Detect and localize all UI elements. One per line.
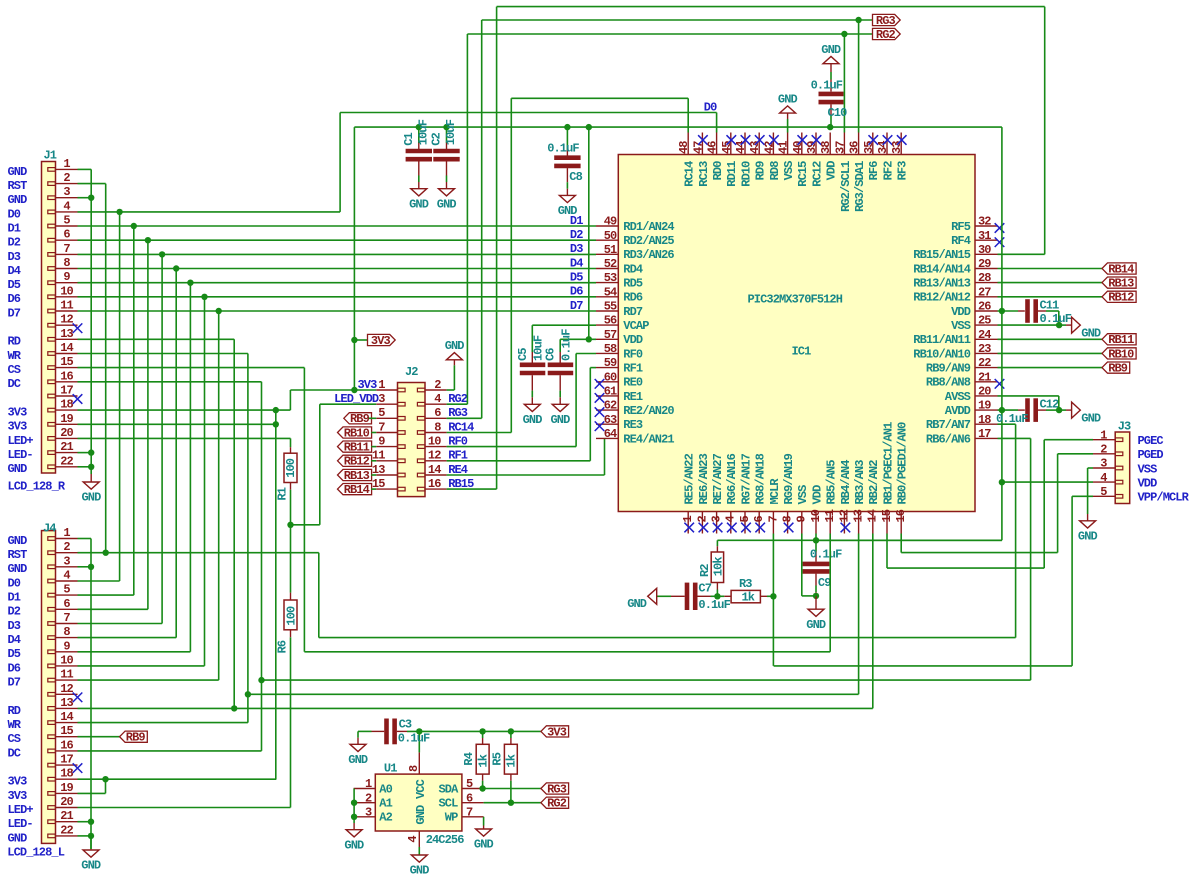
- svg-text:43: 43: [748, 141, 762, 154]
- svg-text:RB9: RB9: [126, 731, 146, 745]
- svg-text:RG3/SDA1: RG3/SDA1: [853, 161, 867, 212]
- svg-text:8: 8: [434, 420, 441, 434]
- svg-text:RB12: RB12: [1108, 291, 1134, 305]
- svg-text:14: 14: [428, 463, 441, 477]
- svg-text:5: 5: [63, 583, 70, 597]
- svg-text:8: 8: [781, 516, 795, 523]
- svg-text:RC14: RC14: [683, 161, 697, 187]
- svg-text:LED-: LED-: [8, 817, 33, 831]
- svg-text:GND: GND: [82, 491, 102, 505]
- svg-text:45: 45: [720, 141, 734, 154]
- svg-text:RF2: RF2: [881, 161, 895, 181]
- svg-text:4: 4: [63, 199, 70, 213]
- svg-text:RD7: RD7: [623, 305, 643, 319]
- svg-text:VSS: VSS: [1138, 462, 1158, 476]
- svg-text:51: 51: [604, 243, 617, 257]
- svg-text:5: 5: [1100, 485, 1107, 499]
- svg-text:RG9/AN19: RG9/AN19: [782, 453, 796, 504]
- svg-text:RG7/AN17: RG7/AN17: [739, 453, 753, 504]
- svg-text:21: 21: [60, 440, 73, 454]
- svg-text:LED+: LED+: [8, 803, 34, 817]
- svg-text:VDD: VDD: [810, 485, 824, 505]
- svg-text:D5: D5: [8, 647, 21, 661]
- svg-text:RD11: RD11: [725, 161, 739, 187]
- svg-text:RB8/AN8: RB8/AN8: [926, 376, 971, 390]
- svg-text:55: 55: [604, 300, 617, 314]
- svg-text:12: 12: [60, 313, 73, 327]
- svg-text:5: 5: [63, 214, 70, 228]
- svg-text:5: 5: [738, 516, 752, 523]
- svg-text:RB15: RB15: [448, 477, 474, 491]
- svg-text:15: 15: [60, 724, 73, 738]
- svg-text:U1: U1: [384, 761, 397, 775]
- svg-text:RF5: RF5: [951, 220, 971, 234]
- svg-text:RF1: RF1: [623, 362, 643, 376]
- svg-text:58: 58: [604, 342, 617, 356]
- svg-text:16: 16: [60, 369, 73, 383]
- svg-text:GND: GND: [409, 197, 429, 211]
- svg-text:49: 49: [604, 215, 617, 229]
- svg-text:WR: WR: [8, 349, 22, 363]
- svg-text:C2: C2: [430, 132, 444, 145]
- svg-text:D3: D3: [8, 619, 21, 633]
- svg-text:C9: C9: [818, 576, 831, 590]
- svg-text:R3: R3: [739, 577, 752, 591]
- svg-text:54: 54: [604, 285, 617, 299]
- svg-text:D7: D7: [570, 299, 583, 313]
- svg-text:1: 1: [63, 526, 70, 540]
- svg-text:C12: C12: [1040, 398, 1060, 412]
- svg-text:D2: D2: [570, 228, 583, 242]
- svg-text:3: 3: [1100, 457, 1107, 471]
- svg-text:RE1: RE1: [623, 390, 643, 404]
- svg-text:9: 9: [378, 434, 385, 448]
- svg-text:RG2: RG2: [876, 28, 896, 42]
- svg-text:11: 11: [823, 509, 837, 522]
- svg-text:3V3: 3V3: [8, 775, 28, 789]
- svg-text:RB14/AN14: RB14/AN14: [913, 262, 970, 276]
- svg-text:2: 2: [63, 171, 70, 185]
- svg-text:VCC: VCC: [414, 779, 428, 799]
- svg-text:0.1uF: 0.1uF: [811, 78, 843, 92]
- svg-text:RB0/PGED1/AN0: RB0/PGED1/AN0: [896, 422, 910, 505]
- svg-text:GND: GND: [1081, 411, 1101, 425]
- svg-text:16: 16: [894, 509, 908, 522]
- svg-text:13: 13: [60, 696, 73, 710]
- svg-text:D4: D4: [8, 264, 21, 278]
- svg-text:RB11: RB11: [344, 441, 370, 455]
- svg-text:26: 26: [978, 300, 991, 314]
- svg-text:D0: D0: [8, 207, 21, 221]
- svg-text:D2: D2: [8, 236, 21, 250]
- svg-text:19: 19: [60, 781, 73, 795]
- svg-text:RC12: RC12: [810, 161, 824, 187]
- svg-text:0.1uF: 0.1uF: [398, 731, 430, 745]
- svg-text:62: 62: [604, 399, 617, 413]
- svg-text:C10: C10: [828, 106, 848, 120]
- svg-text:RB12/AN12: RB12/AN12: [913, 291, 970, 305]
- svg-text:17: 17: [60, 753, 73, 767]
- svg-text:RD0: RD0: [711, 161, 725, 181]
- svg-text:48: 48: [677, 141, 691, 154]
- svg-text:RB9: RB9: [1108, 362, 1128, 376]
- svg-text:GND: GND: [1078, 529, 1098, 543]
- svg-text:9: 9: [63, 270, 70, 284]
- svg-text:5: 5: [378, 406, 385, 420]
- svg-text:R6: R6: [276, 640, 290, 653]
- svg-text:RE0: RE0: [623, 376, 643, 390]
- svg-text:60: 60: [604, 370, 617, 384]
- svg-text:12: 12: [428, 449, 441, 463]
- svg-text:D1: D1: [570, 214, 583, 228]
- svg-text:RB11: RB11: [1108, 333, 1134, 347]
- svg-text:D6: D6: [8, 292, 21, 306]
- svg-text:31: 31: [978, 229, 991, 243]
- svg-text:GND: GND: [523, 413, 543, 427]
- svg-text:D3: D3: [8, 250, 21, 264]
- svg-text:3V3: 3V3: [8, 420, 28, 434]
- svg-text:A0: A0: [379, 782, 392, 796]
- svg-text:8: 8: [63, 625, 70, 639]
- svg-text:RG8/AN18: RG8/AN18: [754, 453, 768, 504]
- svg-text:SDA: SDA: [438, 782, 459, 796]
- svg-text:57: 57: [604, 328, 617, 342]
- svg-text:1: 1: [378, 378, 385, 392]
- svg-text:9: 9: [795, 516, 809, 523]
- svg-text:RD5: RD5: [623, 277, 643, 291]
- svg-text:63: 63: [604, 413, 617, 427]
- svg-text:LED-: LED-: [8, 448, 33, 462]
- svg-text:100: 100: [284, 606, 298, 626]
- svg-text:RE4: RE4: [448, 463, 468, 477]
- svg-text:2: 2: [434, 378, 441, 392]
- svg-text:52: 52: [604, 257, 617, 271]
- svg-text:RB10/AN10: RB10/AN10: [913, 347, 970, 361]
- svg-text:VDD: VDD: [951, 305, 971, 319]
- svg-text:19: 19: [60, 412, 73, 426]
- svg-text:4: 4: [1100, 471, 1107, 485]
- svg-text:RE7/AN27: RE7/AN27: [711, 453, 725, 504]
- svg-text:16: 16: [428, 477, 441, 491]
- svg-text:12: 12: [60, 682, 73, 696]
- svg-text:3: 3: [63, 185, 70, 199]
- svg-text:R5: R5: [491, 752, 505, 765]
- svg-text:RST: RST: [8, 179, 28, 193]
- svg-text:D3: D3: [570, 242, 583, 256]
- svg-text:12: 12: [837, 509, 851, 522]
- svg-text:7: 7: [63, 242, 70, 256]
- svg-text:GND: GND: [8, 193, 28, 207]
- svg-text:1: 1: [365, 777, 372, 791]
- svg-text:RB13/AN13: RB13/AN13: [913, 277, 970, 291]
- svg-text:C5: C5: [516, 348, 530, 361]
- svg-text:PGED: PGED: [1138, 448, 1164, 462]
- svg-text:D2: D2: [8, 605, 21, 619]
- svg-text:22: 22: [60, 823, 73, 837]
- svg-text:D7: D7: [8, 676, 21, 690]
- svg-text:DC: DC: [8, 377, 21, 391]
- svg-text:4: 4: [434, 392, 441, 406]
- svg-text:VDD: VDD: [623, 333, 643, 347]
- svg-text:3V3: 3V3: [358, 378, 378, 392]
- svg-text:37: 37: [833, 141, 847, 154]
- svg-text:C3: C3: [399, 718, 412, 732]
- svg-text:AVDD: AVDD: [945, 404, 971, 418]
- svg-text:19: 19: [978, 399, 991, 413]
- svg-text:RB14: RB14: [1108, 262, 1134, 276]
- svg-text:GND: GND: [8, 534, 28, 548]
- svg-text:RE2/AN20: RE2/AN20: [623, 404, 674, 418]
- svg-text:0.1uF: 0.1uF: [559, 329, 573, 361]
- svg-text:RC15: RC15: [796, 161, 810, 187]
- svg-text:8: 8: [63, 256, 70, 270]
- svg-text:D5: D5: [570, 270, 583, 284]
- svg-text:RD: RD: [8, 704, 21, 718]
- svg-text:D7: D7: [8, 306, 21, 320]
- svg-text:7: 7: [63, 611, 70, 625]
- svg-text:GND: GND: [8, 462, 28, 476]
- svg-text:LED_VDD: LED_VDD: [334, 392, 379, 406]
- svg-text:2: 2: [695, 516, 709, 523]
- svg-text:AVSS: AVSS: [945, 390, 971, 404]
- svg-text:10uF: 10uF: [416, 119, 430, 145]
- svg-text:D6: D6: [570, 285, 583, 299]
- svg-text:RB11/AN11: RB11/AN11: [913, 333, 970, 347]
- svg-text:38: 38: [819, 141, 833, 154]
- svg-text:GND: GND: [445, 339, 465, 353]
- svg-text:J3: J3: [1118, 420, 1131, 434]
- svg-text:RB9/AN9: RB9/AN9: [926, 362, 971, 376]
- svg-text:17: 17: [60, 384, 73, 398]
- svg-text:3: 3: [365, 805, 372, 819]
- svg-text:RG6/AN16: RG6/AN16: [725, 453, 739, 504]
- svg-text:GND: GND: [627, 597, 647, 611]
- svg-text:9: 9: [63, 639, 70, 653]
- svg-text:C8: C8: [569, 170, 582, 184]
- svg-text:6: 6: [434, 406, 441, 420]
- svg-text:RD2/AN25: RD2/AN25: [623, 234, 674, 248]
- svg-text:RD4: RD4: [623, 262, 643, 276]
- svg-text:RG3: RG3: [876, 14, 896, 28]
- svg-text:7: 7: [378, 420, 385, 434]
- svg-text:RG3: RG3: [547, 782, 567, 796]
- svg-text:27: 27: [978, 285, 991, 299]
- svg-text:4: 4: [406, 836, 420, 843]
- svg-text:21: 21: [60, 809, 73, 823]
- svg-text:RD1/AN24: RD1/AN24: [623, 220, 674, 234]
- svg-text:59: 59: [604, 356, 617, 370]
- svg-text:WP: WP: [445, 811, 458, 825]
- svg-text:RF0: RF0: [623, 347, 643, 361]
- svg-text:8: 8: [407, 765, 421, 772]
- svg-text:29: 29: [978, 257, 991, 271]
- svg-text:GND: GND: [821, 43, 841, 57]
- svg-text:VPP/MCLR: VPP/MCLR: [1138, 491, 1190, 505]
- svg-text:J4: J4: [43, 521, 56, 535]
- svg-text:VSS: VSS: [782, 161, 796, 181]
- svg-text:22: 22: [978, 356, 991, 370]
- svg-text:VDD: VDD: [825, 161, 839, 181]
- svg-text:61: 61: [604, 385, 617, 399]
- svg-text:4: 4: [724, 516, 738, 523]
- svg-text:RB12: RB12: [344, 455, 370, 469]
- svg-text:GND: GND: [8, 165, 28, 179]
- svg-text:10uF: 10uF: [444, 119, 458, 145]
- svg-text:D0: D0: [8, 576, 21, 590]
- svg-text:GND: GND: [81, 859, 101, 873]
- svg-text:PGEC: PGEC: [1138, 434, 1164, 448]
- svg-text:RC13: RC13: [697, 161, 711, 187]
- svg-text:J2: J2: [405, 365, 418, 379]
- svg-text:2: 2: [63, 540, 70, 554]
- svg-text:20: 20: [978, 385, 991, 399]
- svg-text:LCD_128_R: LCD_128_R: [8, 480, 66, 494]
- svg-text:25: 25: [978, 314, 991, 328]
- svg-text:RB9: RB9: [350, 412, 370, 426]
- svg-text:32: 32: [978, 215, 991, 229]
- svg-text:10: 10: [60, 284, 73, 298]
- svg-text:GND: GND: [8, 562, 28, 576]
- svg-text:21: 21: [978, 370, 991, 384]
- svg-text:3: 3: [710, 516, 724, 523]
- svg-text:RB4/AN4: RB4/AN4: [839, 460, 853, 505]
- svg-text:100: 100: [284, 458, 298, 478]
- svg-text:RD6: RD6: [623, 291, 643, 305]
- svg-text:RB10: RB10: [1108, 347, 1134, 361]
- svg-text:GND: GND: [806, 618, 826, 632]
- svg-text:GND: GND: [410, 864, 430, 878]
- svg-text:MCLR: MCLR: [768, 478, 782, 505]
- svg-text:10: 10: [60, 653, 73, 667]
- svg-text:RG2: RG2: [448, 392, 468, 406]
- svg-text:GND: GND: [551, 413, 571, 427]
- svg-text:D0: D0: [704, 100, 717, 114]
- svg-text:46: 46: [706, 141, 720, 154]
- svg-text:41: 41: [777, 141, 791, 154]
- svg-text:RE4/AN21: RE4/AN21: [623, 432, 674, 446]
- svg-text:17: 17: [978, 427, 991, 441]
- svg-text:0.1uF: 0.1uF: [1040, 312, 1072, 326]
- svg-text:GND: GND: [1081, 326, 1101, 340]
- svg-text:3: 3: [378, 392, 385, 406]
- svg-text:RB5/AN5: RB5/AN5: [825, 460, 839, 505]
- svg-text:RF0: RF0: [448, 434, 468, 448]
- svg-text:56: 56: [604, 314, 617, 328]
- svg-text:44: 44: [734, 141, 748, 154]
- svg-text:13: 13: [852, 509, 866, 522]
- svg-text:16: 16: [60, 738, 73, 752]
- svg-text:RB13: RB13: [344, 469, 370, 483]
- svg-text:1k: 1k: [476, 754, 490, 767]
- svg-text:18: 18: [60, 398, 73, 412]
- svg-text:VDD: VDD: [1138, 477, 1158, 491]
- svg-text:RB14: RB14: [344, 483, 370, 497]
- svg-text:0.1uF: 0.1uF: [698, 598, 730, 612]
- svg-text:RG3: RG3: [448, 406, 468, 420]
- svg-text:6: 6: [752, 516, 766, 523]
- svg-text:RB2/AN2: RB2/AN2: [867, 460, 881, 505]
- svg-text:C6: C6: [544, 348, 558, 361]
- svg-text:6: 6: [466, 791, 473, 805]
- svg-text:3: 3: [63, 554, 70, 568]
- svg-text:2: 2: [365, 791, 372, 805]
- svg-text:VSS: VSS: [796, 485, 810, 505]
- svg-text:35: 35: [862, 141, 876, 154]
- svg-text:RF4: RF4: [951, 234, 971, 248]
- svg-text:RD: RD: [8, 335, 21, 349]
- svg-text:RF6: RF6: [867, 161, 881, 181]
- svg-text:18: 18: [978, 413, 991, 427]
- svg-text:1: 1: [681, 516, 695, 523]
- svg-text:10: 10: [428, 434, 441, 448]
- svg-text:R1: R1: [275, 487, 289, 500]
- svg-text:D1: D1: [8, 591, 21, 605]
- svg-text:D1: D1: [8, 221, 21, 235]
- svg-text:CS: CS: [8, 363, 21, 377]
- svg-text:A1: A1: [379, 797, 392, 811]
- svg-text:1: 1: [63, 157, 70, 171]
- svg-text:CS: CS: [8, 732, 21, 746]
- svg-text:C1: C1: [402, 132, 416, 145]
- svg-text:RB1/PGEC1/AN1: RB1/PGEC1/AN1: [881, 422, 895, 505]
- svg-text:3V3: 3V3: [547, 725, 567, 739]
- svg-text:36: 36: [848, 141, 862, 154]
- svg-text:20: 20: [60, 426, 73, 440]
- svg-text:30: 30: [978, 243, 991, 257]
- svg-text:14: 14: [60, 710, 73, 724]
- svg-text:11: 11: [60, 668, 73, 682]
- svg-text:22: 22: [60, 454, 73, 468]
- svg-text:0.1uF: 0.1uF: [810, 547, 842, 561]
- svg-text:RE5/AN22: RE5/AN22: [683, 453, 697, 504]
- svg-text:DC: DC: [8, 746, 21, 760]
- svg-text:34: 34: [876, 141, 890, 154]
- svg-text:24C256: 24C256: [426, 833, 465, 847]
- svg-text:RB7/AN7: RB7/AN7: [926, 418, 971, 432]
- svg-text:40: 40: [791, 141, 805, 154]
- svg-text:R2: R2: [698, 564, 712, 577]
- svg-text:1: 1: [1100, 428, 1107, 442]
- svg-text:14: 14: [60, 341, 73, 355]
- svg-text:RF3: RF3: [896, 161, 910, 181]
- svg-text:VSS: VSS: [951, 319, 971, 333]
- svg-text:13: 13: [60, 327, 73, 341]
- svg-text:D6: D6: [8, 661, 21, 675]
- svg-text:RST: RST: [8, 548, 28, 562]
- svg-text:RG2/SCL1: RG2/SCL1: [839, 161, 853, 212]
- svg-text:1k: 1k: [505, 754, 519, 767]
- svg-text:33: 33: [890, 141, 904, 154]
- svg-text:7: 7: [766, 516, 780, 523]
- svg-text:7: 7: [466, 805, 473, 819]
- svg-text:39: 39: [805, 141, 819, 154]
- svg-text:SCL: SCL: [438, 797, 458, 811]
- svg-text:24: 24: [978, 328, 991, 342]
- svg-text:15: 15: [60, 355, 73, 369]
- svg-text:GND: GND: [778, 93, 798, 107]
- svg-text:C11: C11: [1040, 299, 1060, 313]
- svg-text:D5: D5: [8, 278, 21, 292]
- svg-text:6: 6: [63, 228, 70, 242]
- svg-text:J1: J1: [44, 148, 57, 162]
- svg-text:IC1: IC1: [792, 345, 812, 359]
- svg-text:RE3: RE3: [623, 418, 643, 432]
- svg-text:RD10: RD10: [739, 161, 753, 187]
- svg-text:RB10: RB10: [344, 426, 370, 440]
- svg-text:RB13: RB13: [1108, 277, 1134, 291]
- svg-text:3V3: 3V3: [8, 789, 28, 803]
- svg-text:2: 2: [1100, 442, 1107, 456]
